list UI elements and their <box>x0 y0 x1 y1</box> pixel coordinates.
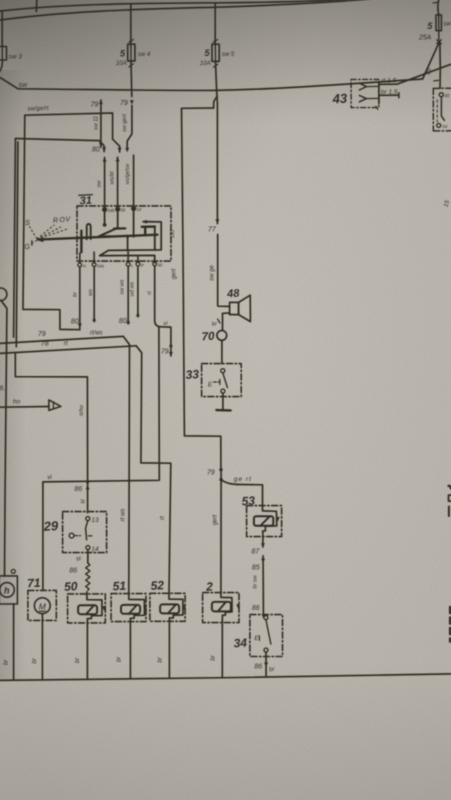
arrowhead down on sw 11 stub <box>99 143 103 148</box>
arrowhead down 87 <box>261 543 265 548</box>
stub terminal H up <box>79 253 81 263</box>
junction tick on top bus <box>35 0 38 12</box>
wire rt turns down and jogs to lamp 52 <box>136 346 171 594</box>
lamp 51 bulb body <box>121 605 140 614</box>
lamp 53 enclosure <box>247 506 282 537</box>
wire fuse sw5 feed <box>214 3 216 45</box>
wire br 1.5 from connector 43 <box>379 94 399 96</box>
junction dot arm x145 <box>144 233 147 236</box>
dashed ray to G <box>30 240 37 244</box>
wire sw5 main continues down (sw ge to horn) <box>216 96 218 223</box>
wire terminal 54a down (ws) <box>93 267 95 322</box>
wire lamp 51 to ground bus <box>129 622 131 679</box>
horn 48 body <box>230 302 239 314</box>
junction dot vi/rt-ho <box>86 480 89 483</box>
junction node 79 lower dot <box>219 478 222 481</box>
connector 43 jaw 2 <box>359 95 366 101</box>
ground symbol below 33 <box>216 409 230 412</box>
ignition contact wire <box>441 97 444 121</box>
lighter 50 enclosure <box>68 594 106 623</box>
wire drop ws/ge/sw into switch terminal 54 <box>133 155 135 206</box>
hook tick at fuse 25A feed <box>433 1 438 4</box>
switch 31 bottom terminal H <box>78 263 82 267</box>
connector 43 jaw 1 <box>359 83 366 90</box>
wire top bus line 2 <box>0 0 372 20</box>
wire fuse sw3 output <box>0 60 3 71</box>
ignition terminal 15 <box>437 123 441 127</box>
arrowhead connector 79 (fuse sw4 wire) <box>130 100 134 105</box>
switch 33 enclosure <box>202 364 242 397</box>
switch 33 actuator dash <box>214 381 220 383</box>
wire branch to long ge/rt feeder <box>182 108 221 470</box>
fuse sw5 wire ticks <box>213 40 218 68</box>
wire lamp 53 down connector 87 <box>262 537 264 547</box>
wire stub connector 79 (sw 11) <box>100 100 102 147</box>
wire sw4 output continues to switch (sw gert) <box>127 106 132 149</box>
wire rt 1.5 from connector 43 to sw bus <box>379 64 451 84</box>
switch 31 right bridge bar <box>142 225 155 228</box>
wire 78 rt horizontal <box>0 346 136 354</box>
connector 43 jaw link 2 <box>366 97 379 99</box>
arrowhead up mark 86 <box>86 485 90 490</box>
G bar mark <box>31 240 33 246</box>
lamp 52 internal wire <box>169 593 183 621</box>
open arrowhead ho <box>49 400 61 411</box>
arrowhead down on sw/ge/rt wire <box>118 148 122 153</box>
switch 31 bottom terminal 30 <box>153 262 157 266</box>
lamp 2 side arrow <box>236 604 240 609</box>
wire fuse 25A feed from top <box>437 0 440 15</box>
arrowhead left on snake wire <box>142 220 147 224</box>
arrowhead up on sw drop <box>103 157 107 162</box>
switch 33 terminal bottom <box>221 389 225 393</box>
switch 33 actuator bar <box>219 380 221 385</box>
switch 31 lever arm <box>38 235 157 240</box>
heater coil of lighter 50 <box>86 563 90 590</box>
arrowhead down 86 at switch 34 output <box>264 662 268 667</box>
switch 31 bridge drop 1 <box>144 227 146 234</box>
wire button 70 to switch 33 <box>221 340 223 363</box>
lamp 53 internal wire <box>263 506 277 537</box>
lamp 51 enclosure <box>111 594 146 622</box>
switch 33 terminal top <box>221 369 225 373</box>
lighter 50 element diagonal <box>86 605 94 614</box>
wire lamp 52 to ground bus <box>168 621 170 678</box>
switch 31 bridge drop 2 <box>154 227 156 250</box>
switch 31 contact hook <box>87 224 91 239</box>
switch 31 top terminal 54 <box>132 207 136 211</box>
lamp 52 enclosure <box>150 593 185 621</box>
wire sw bus <box>0 78 423 91</box>
wire fuse sw3 feed <box>1 12 3 47</box>
wire drop sw into switch terminal 54b <box>104 158 106 208</box>
switch 31 arm drop to snake <box>127 237 129 250</box>
lamp 51 side arrow <box>143 606 147 611</box>
relay 29 knob circle <box>69 533 74 538</box>
t tick on ignition feed <box>434 79 439 82</box>
arrowhead up mark on vi wire <box>169 342 173 347</box>
switch 31 snake wire from terminal 30 <box>100 222 162 263</box>
fuse sw4 <box>128 44 135 61</box>
dashed ray to O <box>37 227 61 239</box>
switch 31 terminal 56 drop <box>117 211 119 228</box>
wire ho arrow line <box>0 406 49 409</box>
wire top bus line 1 (terminal 30 rail) <box>0 0 345 11</box>
wire terminal 30 down (rt) <box>154 266 156 321</box>
wire wiper motor 71 to ground bus <box>41 614 43 679</box>
wire switch 34 to ground bus <box>265 652 267 677</box>
relay 29 enclosure <box>63 512 107 553</box>
fuse 25A <box>436 15 441 31</box>
wire br sw down to switch 34 <box>262 556 264 617</box>
relay 29 contact tick <box>88 535 92 537</box>
wire down to ignition switch box <box>439 44 441 89</box>
arrowhead up on ws wire end <box>92 317 96 322</box>
lamp 53 bulb diagonal <box>260 516 269 525</box>
wire fuse sw4 output <box>130 61 133 97</box>
connector circle at left edge <box>0 288 7 301</box>
fuse sw3 element wire <box>1 47 3 61</box>
clock h dial circle <box>0 583 14 598</box>
wire terminal P down (ud ws) <box>137 266 139 317</box>
lamp 53 bulb body <box>254 516 273 526</box>
clock h enclosure <box>0 576 17 604</box>
inner bar of ho arrowhead <box>52 402 54 409</box>
wire terminal H down (br) <box>79 267 81 329</box>
switch 33 contact blade <box>223 373 228 388</box>
wire harness line to node A <box>15 139 104 152</box>
wire fuse sw5 output <box>214 61 217 107</box>
clock h terminal circle <box>11 569 15 573</box>
right edge marks upper <box>449 486 451 489</box>
lamp 2 enclosure <box>203 593 239 623</box>
switch 31 bottom terminal P <box>136 262 140 266</box>
ignition inner dash <box>436 100 438 122</box>
connector 43 jaw link 1 <box>366 85 379 87</box>
fuse sw4 wire ticks <box>129 40 133 67</box>
arrowhead up on ud ws wire end <box>136 312 140 317</box>
fuse 25A element wire <box>438 15 440 40</box>
stub terminal 54a up <box>93 252 95 263</box>
wire drop ws/bl into switch terminal 56 <box>117 157 119 207</box>
switch 34 enclosure <box>250 615 283 657</box>
lighter 50 internal wire <box>87 592 102 623</box>
wire sw ge resumes to horn <box>218 235 230 307</box>
wire switch 33 to ground <box>222 393 224 410</box>
arrowhead down on node A wire <box>102 147 106 152</box>
lighter 50 element body <box>78 605 97 614</box>
wire between node 79 dots <box>220 470 222 480</box>
arrowhead down connector 77 <box>215 219 219 224</box>
arrowhead down connector 79 vi end <box>169 352 173 357</box>
lamp 52 bulb body <box>160 604 179 613</box>
arrowhead up on sw ws wire end <box>126 319 130 324</box>
switch 34 terminal top <box>264 616 268 620</box>
lamp 52 side arrow <box>182 605 186 610</box>
relay 29 dash link <box>75 535 81 537</box>
switch 31 moving contact diagonal <box>99 228 118 237</box>
motor 71 M underline <box>39 610 47 612</box>
wire ge rt branch to lamp 53 <box>221 480 262 506</box>
switch 31 junction dot on arm <box>132 234 135 237</box>
stub terminal P up <box>137 256 139 263</box>
stub terminal L up <box>127 250 129 262</box>
switch 31 terminal 54 drop <box>133 210 135 235</box>
wiper motor 71 circle <box>34 598 50 614</box>
wire lamp 50 to ground bus <box>86 623 88 679</box>
connector 43 bottom tick <box>376 106 378 109</box>
wire sw/ge/rt staircase harness <box>23 115 80 330</box>
connector 43 pin bar <box>378 82 380 104</box>
wiper motor 71 enclosure <box>28 590 56 620</box>
lamp 51 internal wire <box>129 594 145 622</box>
lamp 2 bulb body <box>212 602 231 612</box>
switch 31 contact blob <box>103 223 107 227</box>
wire diagonal sw bus to fuse 25A <box>423 43 439 79</box>
arrowhead connector 80 (sw gert wire) <box>125 148 129 152</box>
wire arc to connector 79 (vi) <box>155 321 171 356</box>
fuse sw5 <box>212 44 219 61</box>
horn button 70 <box>217 331 227 341</box>
lamp 2 bulb diagonal <box>218 602 226 612</box>
wire relay 29 to heater coil <box>87 550 89 563</box>
wire fuse sw4 feed <box>130 4 132 46</box>
dashed ray to V <box>37 229 68 240</box>
end bar of br 1.5 wire <box>398 93 400 98</box>
fuse sw4 element wire <box>130 44 132 61</box>
relay 29 contact blade <box>86 521 88 540</box>
wire lamp 2 to ground bus <box>221 623 223 678</box>
lamp 51 bulb diagonal <box>129 605 137 614</box>
relay 29 terminal 14 <box>86 546 90 550</box>
fuse sw3 <box>0 47 7 61</box>
wire terminal L down (sw ws) <box>127 266 129 324</box>
wire long vertical left pair 2 <box>16 142 18 347</box>
fuse sw5 element wire <box>214 44 216 61</box>
switch 31 moving contact base <box>99 235 110 237</box>
dashed ray to R <box>37 225 55 239</box>
switch 34 actuator <box>258 636 260 641</box>
wire from edge connector down to clock h <box>1 300 7 576</box>
arrowhead up on ws/bl drop <box>116 157 120 162</box>
switch 31 top terminal 54b <box>103 208 107 212</box>
switch 31 left contact bar <box>80 231 82 253</box>
lamp 52 bulb diagonal <box>168 604 176 613</box>
connector 43 enclosure <box>351 79 379 107</box>
switch 31 bottom terminal 54a <box>92 263 96 267</box>
junction dot arm x127 <box>126 235 129 238</box>
wire clock h to ground bus <box>13 604 15 680</box>
ground bus bottom <box>0 674 451 681</box>
switch 31 lever arrowhead <box>36 237 43 242</box>
lamp 2 internal wire <box>221 591 232 622</box>
lighter 50 side arrow <box>102 606 106 611</box>
wire 79 rt/ws horizontal <box>0 336 123 343</box>
wire long vertical left pair 1 <box>14 139 16 337</box>
wire horn output to horn button <box>223 313 230 330</box>
switch 31 overline <box>79 194 93 197</box>
relay 29 terminal 13 <box>86 517 90 521</box>
right edge dashed component lower <box>449 607 451 642</box>
wire rt/ws turns down to lamp 51 <box>123 336 129 593</box>
wire vi branch down to junction and across to wiper 71 <box>43 327 159 591</box>
switch 34 contact blade <box>266 620 271 645</box>
switch 31 bottom terminal L <box>126 262 130 266</box>
arrowhead down 85 <box>261 559 265 564</box>
dashed ray to S <box>29 226 37 239</box>
x mark below fuse 25A <box>437 40 441 44</box>
ignition terminal 30 <box>439 93 443 97</box>
wire sw/ge/rt from harness to switch <box>25 113 120 152</box>
ignition switch enclosure partial <box>433 88 451 131</box>
switch 31 enclosure <box>77 206 171 261</box>
tick br label mark <box>218 319 221 323</box>
wire drop to relay 29 terminal 13 <box>87 482 89 513</box>
switch 31 terminal 56 bar <box>114 227 125 229</box>
arrowhead up on sw 11 stub <box>99 100 103 105</box>
switch 34 terminal bottom <box>264 648 268 652</box>
wire gert main down to lamp 2 <box>220 480 222 592</box>
junction node 79 upper dot <box>219 468 222 471</box>
wire rt/ho from left edge to relay 29 <box>15 353 87 482</box>
horn 48 trapezoid <box>239 295 251 321</box>
lamp 53 side arrow <box>276 517 280 522</box>
arrowhead down connector 80 on br wire <box>78 323 82 328</box>
switch 31 terminal 54b drop <box>104 211 106 224</box>
switch 31 top terminal 56 <box>116 207 120 211</box>
